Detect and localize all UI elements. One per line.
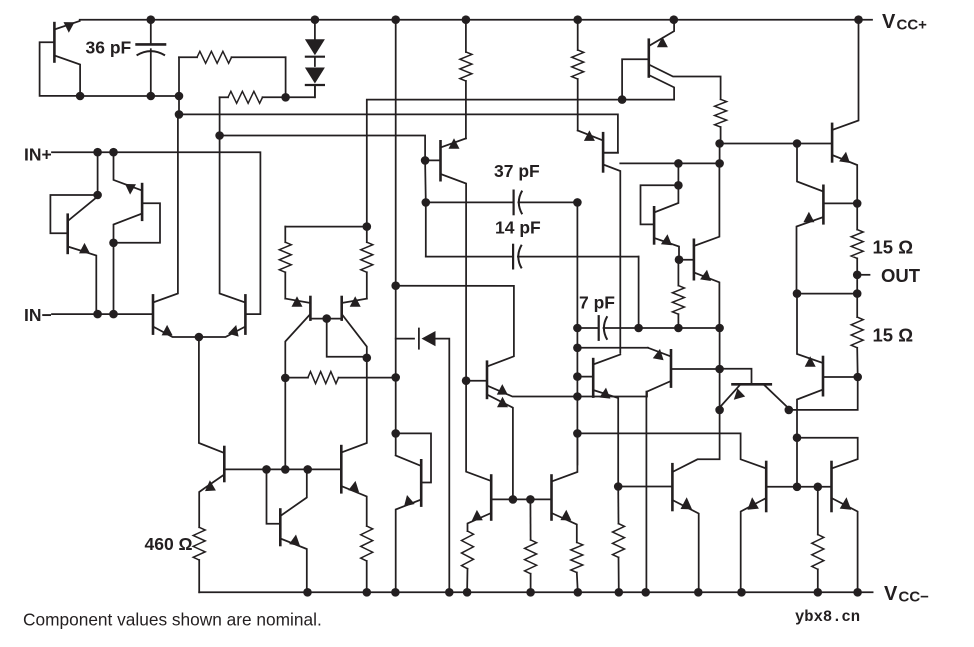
resistor R17 [613, 487, 625, 593]
resistor R18 [812, 487, 824, 593]
transistor Q25 [797, 144, 858, 294]
node mirror top junction [363, 222, 372, 231]
node x577 junction y396.5 [573, 392, 582, 401]
node C4 wire junction x719.6 [715, 324, 724, 333]
label C1 value [86, 38, 132, 58]
wire Q19 collector to rail [645, 392, 647, 593]
node Q3 collector/base junction [109, 239, 118, 248]
node top-rail junction x150.8 [147, 15, 156, 24]
transistor Q23 [720, 369, 789, 410]
svg-text:37 pF: 37 pF [494, 161, 540, 181]
transistor Q15 [622, 20, 721, 100]
wire Q13 base column [424, 160, 427, 202]
label R10 value [873, 237, 914, 258]
node Q16 base-collector junction [674, 181, 683, 190]
node OUT column junction y293.6 [853, 289, 862, 298]
wire VCC- rail (bottom) [199, 591, 872, 593]
label VCC- [884, 583, 929, 606]
label C4 value [579, 293, 615, 313]
node base-line junction x285.3 [281, 465, 290, 474]
transistor Q11 [396, 433, 431, 592]
node bottom-rail junction x618.8 [615, 588, 624, 597]
node y99.6 junction x622.1 [618, 95, 627, 104]
svg-text:IN−: IN− [24, 305, 52, 325]
wire Q1 bottom node [80, 95, 179, 97]
node C2 left junction [422, 198, 431, 207]
label R12 value [145, 534, 193, 554]
node mirror base junction [322, 314, 331, 323]
node emitters junction [793, 289, 802, 298]
node OUT column junction y203.4 [853, 199, 862, 208]
node Q7 collector junction [281, 374, 290, 383]
node bottom-rail junction x366.8 [363, 588, 372, 597]
wire C3 left branch [425, 202, 427, 256]
wire emitters join [797, 293, 857, 295]
node bias junction y285.7 [391, 281, 400, 290]
node x577 junction y376.6 [573, 372, 582, 381]
node top-rail junction x314.9 [311, 15, 320, 24]
caption text [23, 609, 322, 629]
node R1 junction x179 y96 [175, 92, 184, 101]
capacitor C1 36 pF [137, 20, 165, 96]
capacitor C2 37 pF [426, 191, 578, 215]
wire diode branch [286, 87, 315, 98]
wire y409.9 link [789, 377, 858, 410]
wire output base feed [720, 143, 833, 145]
wire y163.4 [620, 162, 719, 164]
transistor Q24 [797, 294, 858, 438]
resistor R12 460 ohm [193, 527, 205, 592]
node R5 bottom junction [715, 139, 724, 148]
node x577 junction y433.4 [573, 429, 582, 438]
label C2 value [494, 161, 540, 181]
transistor Q4 [153, 114, 199, 337]
node base-line junction x266.5 [262, 465, 271, 474]
node bottom-rail junction x449.3 [445, 588, 454, 597]
resistor R9 [672, 260, 684, 328]
watermark [795, 608, 860, 626]
node base-line junction x817.8 [814, 483, 823, 492]
node bias junction y433.4 [391, 429, 400, 438]
svg-text:36 pF: 36 pF [86, 38, 132, 58]
wire x719.6 link [719, 144, 721, 164]
wire to Q28 collector [797, 438, 858, 469]
node C1 bottom junction [147, 92, 156, 101]
node Q24 collector junction [793, 433, 802, 442]
node Q12 base junction [462, 376, 471, 385]
svg-text:V: V [884, 583, 898, 605]
transistor Q7 [285, 296, 326, 378]
transistor Q20 [491, 433, 577, 542]
node top-rail junction x465.9 [462, 15, 471, 24]
node top-rail end x858.5 [854, 15, 863, 24]
node x577 junction y328 [573, 324, 582, 333]
node x719.6 junction y409.9 [715, 406, 724, 415]
node y163.4 junction x678.4 [674, 159, 683, 168]
svg-text:V: V [882, 11, 896, 33]
transistor Q12 [466, 362, 577, 500]
resistor R5 [715, 99, 727, 143]
diode D2 [305, 58, 325, 98]
resistor R2 [220, 91, 286, 135]
node top-rail junction x577.7 [573, 15, 582, 24]
svg-text:460 Ω: 460 Ω [145, 534, 193, 554]
transistor Q3 [114, 152, 161, 314]
transistor Q1 [40, 21, 81, 96]
diode D1 [305, 20, 325, 57]
svg-text:Component values shown are nom: Component values shown are nominal. [23, 609, 322, 629]
wire C3 right branch [638, 257, 640, 328]
svg-text:7 pF: 7 pF [579, 293, 615, 313]
node bottom-rail junction x645.7 [641, 588, 650, 597]
transistor Q16 [641, 163, 680, 259]
transistor Q21 [466, 381, 491, 531]
node R8 right junction [391, 373, 400, 382]
node Q1 emitter/base junction [76, 92, 85, 101]
wire mirror top [285, 226, 367, 228]
node y143.5 junction x797 [793, 139, 802, 148]
node top-rail junction x673.8 [670, 15, 679, 24]
node IN- junction x97.6 [93, 310, 102, 319]
wire x719.6 column [719, 328, 721, 410]
transistor Q5 [199, 136, 246, 338]
transistor Q22 [618, 410, 719, 592]
label R11 value [873, 325, 914, 346]
transistor Q19 [577, 348, 719, 397]
node Q8 collector junction [363, 354, 372, 363]
node base-line junction x307.7 [303, 465, 312, 474]
resistor R8 [285, 372, 395, 384]
transistor Q2 [50, 152, 97, 314]
wire feed to Q13 base [220, 136, 426, 161]
wire mirror base to right collector [327, 319, 367, 357]
node bottom-rail junction x307.5 [303, 588, 312, 597]
capacitor C4 7 pF [577, 316, 719, 340]
wire second-stage output line [577, 433, 766, 468]
node IN- junction x113.5 [109, 310, 118, 319]
wire long feed to Q14 base [179, 114, 618, 152]
transistor Q17 [694, 163, 720, 328]
node Q16 emitter junction [675, 255, 684, 264]
wire bias vertical [395, 20, 397, 455]
node bottom-rail junction x467.1 [463, 588, 472, 597]
svg-text:ybx8.cn: ybx8.cn [795, 608, 860, 626]
node C2 right junction [573, 198, 582, 207]
label VCC+ [882, 11, 927, 34]
wire x179 vertical [178, 96, 180, 114]
node y163.4 junction x719.6 [715, 159, 724, 168]
svg-text:15 Ω: 15 Ω [873, 237, 914, 258]
label C3 value [495, 218, 541, 238]
wire y99.6 node [367, 100, 674, 227]
wire second-stage feed [396, 286, 514, 367]
wire x797 column [796, 438, 798, 487]
resistor R16 [571, 542, 583, 592]
transistor Q28 [832, 462, 858, 592]
node base-line junction x512.9 [509, 495, 518, 504]
node bottom-rail junction x817.8 [814, 588, 823, 597]
svg-text:15 Ω: 15 Ω [873, 325, 914, 346]
transistor Q26 [832, 20, 858, 204]
transistor Q14 [578, 130, 621, 352]
resistor R13 [361, 526, 373, 592]
node R2 bottom junction [215, 131, 224, 140]
wire Q17 base link [679, 259, 694, 261]
node bottom-rail junction x698.3 [694, 588, 703, 597]
node bottom-rail junction x530.6 [526, 588, 535, 597]
wire IN+ line [52, 152, 260, 314]
svg-text:IN+: IN+ [24, 144, 52, 164]
resistor R3 [460, 20, 472, 139]
node x577 junction y347.8 [573, 344, 582, 353]
node tail junction [195, 333, 204, 342]
node bottom-rail junction x741.5 [737, 588, 746, 597]
wire OUT column [856, 275, 858, 294]
transistor Q9 [341, 358, 367, 526]
wire y396.5 link [577, 396, 646, 398]
wire IN- line [52, 313, 153, 315]
transistor Q8 [327, 296, 367, 358]
node Q2 collector/base junction [93, 191, 102, 200]
node bottom-rail junction x395.4 [391, 588, 400, 597]
node bottom-rail junction x577.8 [574, 588, 583, 597]
node IN+ junction x113.5 [109, 148, 118, 157]
transistor Q13 [425, 138, 466, 380]
resistor R15 [525, 499, 537, 592]
transistor Q10 [267, 469, 307, 592]
node IN+ junction x97.6 [93, 148, 102, 157]
node x719.6 junction y369 [715, 365, 724, 374]
svg-text:14 pF: 14 pF [495, 218, 541, 238]
node base-line junction x797 [793, 483, 802, 492]
wire x577 node column [576, 202, 578, 464]
resistor R7 [361, 227, 373, 299]
node x179 y114.4 junction [175, 110, 184, 119]
resistor R1 [179, 51, 286, 97]
resistor R6 [279, 227, 291, 299]
node R1/R2 right junction [281, 93, 290, 102]
svg-text:OUT: OUT [881, 265, 921, 286]
wire Q7 collector down [284, 378, 286, 470]
node Q13 base junction [421, 156, 430, 165]
label IN- [24, 305, 52, 325]
node OUT junction [853, 271, 862, 280]
wire OUT stub [857, 274, 869, 276]
diode D3 [396, 329, 450, 593]
transistor Q18 [577, 355, 620, 487]
svg-text:CC−: CC− [899, 589, 930, 606]
resistor R10 15 ohm [851, 203, 863, 274]
resistor R11 15 ohm [851, 294, 863, 377]
resistor R4 [572, 20, 584, 131]
transistor Q27 [741, 462, 832, 592]
resistor R14 [462, 531, 474, 592]
label IN+ [24, 144, 52, 164]
node Q24 base junction [853, 373, 862, 382]
svg-text:CC+: CC+ [897, 17, 928, 34]
node Q22 base junction [614, 482, 623, 491]
node C4 wire junction x678.4 [674, 324, 683, 333]
wire VCC+ rail (top) [80, 19, 872, 21]
node bottom-rail junction x857.6 [853, 588, 862, 597]
transistor Q6 [199, 337, 341, 527]
capacitor C3 14 pF [426, 245, 639, 269]
node top-rail junction x395.7 [391, 15, 400, 24]
node Q23 collector junction [785, 406, 794, 415]
node C4 wire junction x638.6 [634, 324, 643, 333]
label OUT [881, 265, 921, 286]
node base-line junction x530.4 [526, 495, 535, 504]
